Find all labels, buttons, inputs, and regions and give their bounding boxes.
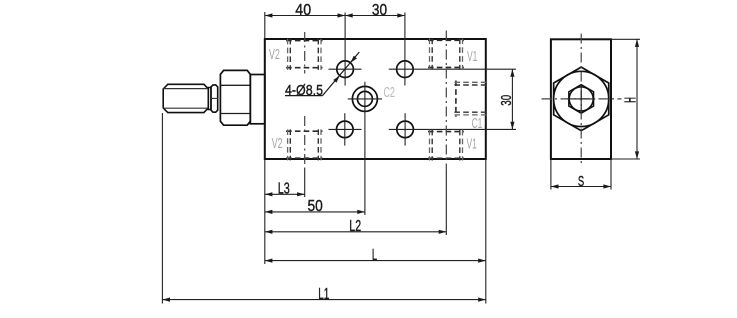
svg-text:L3: L3 xyxy=(278,181,290,198)
svg-text:4-Ø8.5: 4-Ø8.5 xyxy=(285,83,323,99)
svg-text:H: H xyxy=(622,97,639,103)
svg-text:30: 30 xyxy=(498,95,515,106)
svg-text:V2: V2 xyxy=(272,136,283,152)
svg-text:40: 40 xyxy=(295,2,311,19)
svg-text:30: 30 xyxy=(372,2,387,19)
svg-text:50: 50 xyxy=(307,198,322,215)
svg-text:C2: C2 xyxy=(383,85,395,101)
svg-text:C1: C1 xyxy=(472,116,483,132)
svg-text:L2: L2 xyxy=(349,218,361,235)
svg-text:V1: V1 xyxy=(467,49,477,65)
svg-text:V1: V1 xyxy=(467,137,477,153)
svg-text:L: L xyxy=(372,247,377,264)
svg-text:S: S xyxy=(578,173,584,190)
svg-text:V2: V2 xyxy=(269,47,280,63)
svg-text:L1: L1 xyxy=(318,286,329,303)
